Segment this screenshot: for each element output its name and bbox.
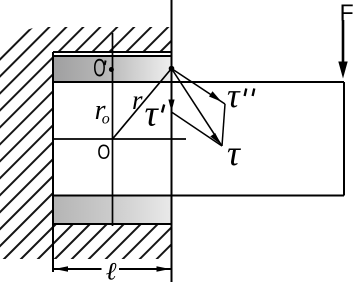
- dimension line l: [53, 266, 172, 272]
- beam bottom edge: [53, 195, 344, 197]
- prime of O': [104, 61, 107, 66]
- label ell: [106, 257, 117, 285]
- bar2 bottom edge: [53, 223, 172, 225]
- vertical centerline: [112, 33, 114, 226]
- force F arrow: [338, 20, 347, 79]
- svg-text:o: o: [102, 111, 110, 128]
- svg-text:F: F: [340, 0, 354, 25]
- svg-text:O: O: [93, 55, 105, 82]
- bar1 top edge: [53, 55, 172, 57]
- wall face line: [171, 0, 173, 282]
- plate left edge / extension line: [52, 52, 54, 272]
- svg-text:τ: τ: [227, 76, 241, 115]
- horizontal center line through O: [53, 138, 186, 140]
- vector tau resultant: [172, 69, 223, 147]
- beam right edge: [343, 82, 345, 196]
- wall hatching region: [0, 27, 172, 259]
- svg-text:r: r: [132, 85, 143, 115]
- wall top edge: [53, 51, 172, 53]
- parallelogram side D-C: [222, 104, 225, 146]
- label O': [93, 55, 105, 82]
- parallelogram side B-C: [172, 112, 223, 146]
- bolt bar bottom (gradient): [53, 196, 172, 225]
- node O' dot: [109, 67, 114, 72]
- primes of tau-doubleprime: [245, 89, 247, 97]
- beam top edge: [53, 81, 344, 83]
- vector tau-doubleprime: [172, 69, 226, 105]
- label O: [97, 141, 110, 164]
- radius r line: [113, 69, 172, 140]
- node apex dot: [169, 66, 175, 72]
- vector tau-prime: [168, 69, 174, 113]
- svg-text:O: O: [97, 141, 110, 164]
- svg-text:ℓ: ℓ: [106, 257, 117, 285]
- svg-text:τ: τ: [145, 94, 160, 135]
- prime of tau-prime: [162, 105, 164, 113]
- bolt bar top (gradient): [53, 56, 172, 82]
- svg-text:τ: τ: [227, 133, 241, 173]
